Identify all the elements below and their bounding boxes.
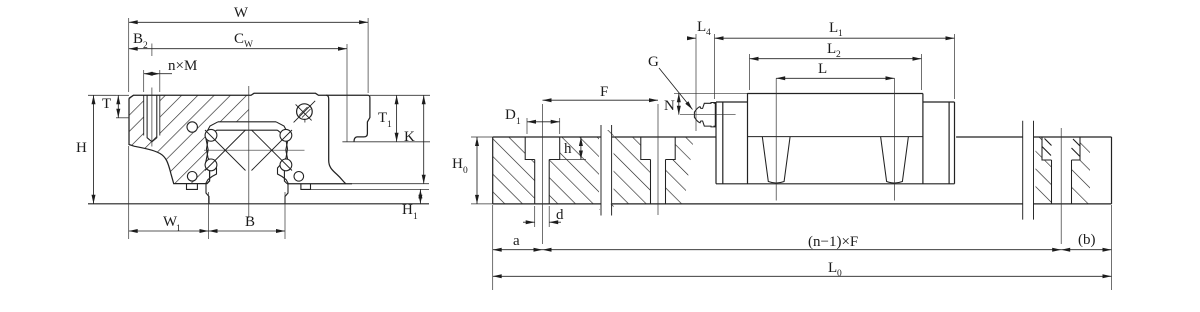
svg-text:n×M: n×M xyxy=(168,58,197,74)
dimension d xyxy=(534,206,536,227)
grease nipple xyxy=(694,103,715,127)
carriage bottom extension line to K xyxy=(352,183,429,185)
bolt hole 2 counterbore xyxy=(641,137,675,160)
carriage right end cap xyxy=(923,94,955,184)
rail bed section hatch around right end bolt hole xyxy=(1036,137,1091,204)
ball lower left xyxy=(205,159,217,171)
bolt hole 1 bore xyxy=(535,160,550,204)
svg-text:T: T xyxy=(378,110,387,126)
svg-text:1: 1 xyxy=(413,212,418,222)
threaded hole n×M thread lines xyxy=(144,95,160,135)
rail top line under carriage xyxy=(748,136,923,138)
rail cross-section left side profile xyxy=(206,130,217,204)
rail bottom surface side view xyxy=(493,203,1112,205)
rail top surface side view xyxy=(493,136,1112,138)
bolt hole 3 centerline xyxy=(1060,128,1062,244)
left end-seal tab xyxy=(187,184,198,190)
dimension a and (n-1)×F and (b) xyxy=(492,205,494,255)
dimension H0 xyxy=(471,136,493,138)
right end-seal tab xyxy=(301,184,311,190)
ball row centerline horizontal xyxy=(204,149,305,151)
carriage left end cap xyxy=(716,94,748,184)
rail cross-section right side profile xyxy=(278,130,289,204)
carriage block side view top xyxy=(748,93,923,95)
dimension L xyxy=(776,77,894,79)
svg-text:H: H xyxy=(402,202,413,218)
svg-text:W: W xyxy=(234,5,249,21)
svg-text:(n−1)×F: (n−1)×F xyxy=(808,234,858,250)
carriage left inner groove profile xyxy=(205,122,218,171)
rail centerline vertical xyxy=(248,86,250,218)
mounting hole trapezoid 1 xyxy=(762,137,790,183)
svg-text:K: K xyxy=(404,129,415,145)
dimension N xyxy=(674,92,748,94)
svg-text:1: 1 xyxy=(838,29,843,39)
mounting hole trapezoid 2 xyxy=(881,137,909,183)
dimension H1 xyxy=(419,189,421,203)
rail bottom / mounting surface line xyxy=(88,203,429,205)
ball upper left xyxy=(205,129,217,141)
dimension D1 xyxy=(527,121,560,123)
svg-text:N: N xyxy=(664,98,675,114)
rail bed section hatch (side view left portion) xyxy=(493,130,694,210)
rail top surface xyxy=(217,129,278,131)
rail right end edge xyxy=(1111,137,1113,204)
svg-text:B: B xyxy=(245,214,255,230)
carriage bottom extension line to H1 xyxy=(311,188,430,190)
contact-angle cross right xyxy=(252,130,293,171)
wing bottom line / T1 K extension xyxy=(342,141,430,143)
svg-text:1: 1 xyxy=(387,120,392,130)
bolt hole 2 bore xyxy=(651,160,666,204)
mounting bolt hole circle on right half xyxy=(297,104,313,120)
ball return bore lower (white hole in section) xyxy=(187,172,197,182)
carriage bottom edge right of rail xyxy=(287,183,352,185)
svg-text:G: G xyxy=(648,54,659,70)
dimension n×M xyxy=(144,73,160,75)
bolt hole 1 counterbore xyxy=(525,137,560,160)
dimension T1 xyxy=(396,95,398,142)
svg-text:L: L xyxy=(697,19,706,35)
svg-text:C: C xyxy=(234,31,244,47)
svg-text:B: B xyxy=(133,31,143,47)
svg-text:H: H xyxy=(452,156,463,172)
bolt hole cross diagonals xyxy=(294,101,316,123)
bolt hole 2 centerline xyxy=(657,104,659,215)
dimension K xyxy=(423,95,425,183)
dimension H xyxy=(88,94,116,96)
svg-text:D: D xyxy=(505,107,516,123)
carriage outline (cross-section view) xyxy=(129,93,370,142)
bolt hole 3 bore xyxy=(1052,160,1072,204)
bolt hole 3 counterbore hatch marks xyxy=(1042,139,1080,157)
svg-text:2: 2 xyxy=(836,50,841,60)
dimension F xyxy=(543,99,659,101)
svg-text:H: H xyxy=(76,140,87,156)
dimension L0 xyxy=(492,255,494,290)
bolt hole 1 centerline xyxy=(542,104,544,244)
svg-text:T: T xyxy=(102,96,111,112)
contact-angle cross left xyxy=(205,130,246,171)
svg-text:0: 0 xyxy=(837,269,842,279)
trapezoid 2 centerline xyxy=(894,78,896,200)
svg-text:a: a xyxy=(513,233,520,249)
svg-text:W: W xyxy=(244,40,253,50)
carriage right inner groove profile xyxy=(276,122,289,184)
ball upper right xyxy=(280,129,292,141)
dimension h xyxy=(560,159,586,161)
carriage left edge and skirt xyxy=(129,98,210,183)
grease nipple boss xyxy=(714,103,717,126)
svg-text:F: F xyxy=(600,84,608,100)
dimension W xyxy=(129,21,368,23)
rail left end edge xyxy=(492,137,494,204)
svg-text:4: 4 xyxy=(706,28,711,38)
carriage bottom edge side view xyxy=(716,183,955,185)
carriage ceiling line above rail xyxy=(218,121,276,123)
svg-text:d: d xyxy=(556,207,564,223)
dimension T xyxy=(116,94,129,96)
svg-text:0: 0 xyxy=(463,166,468,176)
threaded hole n×M drill lines with point xyxy=(147,95,157,142)
svg-text:L: L xyxy=(829,20,838,36)
right lower return bore arc xyxy=(294,172,304,182)
svg-text:L: L xyxy=(827,41,836,57)
carriage section hatch (left half of cross-section view) xyxy=(129,95,249,183)
bolt hole inner hatch marks xyxy=(299,107,311,118)
bolt hole stem line xyxy=(304,119,306,122)
svg-text:L: L xyxy=(828,260,837,276)
carriage right body edge with skirt curve xyxy=(326,95,346,183)
dimension L1 and L4 xyxy=(715,37,955,39)
grease nipple axis line xyxy=(680,114,736,116)
dimension W1 and B xyxy=(128,146,130,239)
svg-text:h: h xyxy=(564,141,572,157)
break lines left pair xyxy=(601,125,612,216)
dimension L2 xyxy=(750,58,922,60)
svg-text:1: 1 xyxy=(176,224,181,234)
bolt hole 3 counterbore xyxy=(1042,137,1080,160)
dimension Cw xyxy=(129,48,347,50)
top surface extension right xyxy=(370,94,430,96)
svg-text:L: L xyxy=(818,61,827,77)
svg-text:1: 1 xyxy=(516,117,521,127)
svg-text:(b): (b) xyxy=(1078,232,1096,248)
svg-text:2: 2 xyxy=(143,41,148,51)
trapezoid 1 centerline xyxy=(775,78,777,200)
ball lower right xyxy=(280,159,292,171)
threaded hole centerline xyxy=(151,44,153,147)
break lines right pair xyxy=(1023,121,1034,220)
ball return bore upper (white hole in section) xyxy=(187,122,197,132)
